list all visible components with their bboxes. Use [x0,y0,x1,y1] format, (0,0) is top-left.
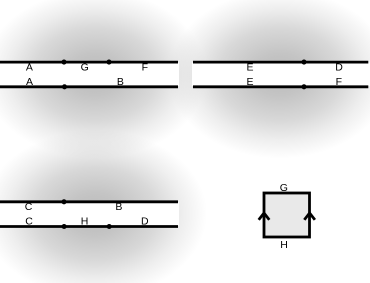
gradient blob top-right [168,0,370,159]
svg-text:B: B [117,76,124,88]
point on line 2 [62,84,67,89]
svg-text:G: G [81,61,89,73]
arrow mark right side [304,213,315,220]
line 1 (top-left upper) [0,61,178,64]
point on line 1 [61,60,66,65]
gradient blob bottom-left [0,130,207,283]
point on line 3 [301,60,306,65]
svg-text:C: C [25,201,33,213]
svg-text:H: H [81,216,89,228]
line 6 (bottom-left lower) [0,225,178,228]
svg-text:F: F [142,61,148,73]
svg-text:C: C [25,216,33,228]
svg-text:D: D [335,61,343,73]
svg-text:G: G [280,182,288,194]
line 5 (bottom-left upper) [0,200,178,203]
gradient blob top-left [0,0,207,159]
white band between top-right lines [192,63,370,87]
point on line 4 [301,84,306,89]
svg-text:E: E [246,61,253,73]
svg-text:D: D [141,216,149,228]
line 2 (top-left lower) [0,85,178,88]
point on line 6 [107,224,112,229]
svg-text:F: F [336,76,342,88]
arrow mark left side [259,213,270,220]
svg-text:E: E [246,76,253,88]
point on line 6 [62,224,67,229]
point on line 1 [106,60,111,65]
svg-text:A: A [26,61,33,73]
svg-text:B: B [115,201,122,213]
svg-text:A: A [26,76,33,88]
line 3 (top-right upper) [193,61,368,64]
square GH [264,193,310,237]
svg-text:H: H [280,239,288,251]
point on line 5 [61,199,66,204]
white band between bottom-left lines [0,202,179,226]
white band between top-left lines [0,63,179,87]
line 4 (top-right lower) [193,85,368,88]
